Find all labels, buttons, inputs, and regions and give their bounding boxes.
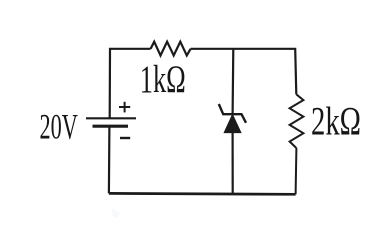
wire middle branch top (tee on top wire down to zener cathode) — [232, 49, 235, 114]
svg-text:20V: 20V — [40, 106, 78, 146]
svg-text:2kΩ: 2kΩ — [311, 98, 361, 143]
scan artifact (faint smudge) — [112, 208, 120, 218]
wire right vertical lower (R2 to bottom-right corner) — [295, 148, 298, 194]
wire top-right segment (R1 to top-right corner, down to R2) — [191, 49, 297, 95]
battery V1 bottom plate (−) — [93, 125, 129, 128]
zener diode D1 triangle (anode, filled) — [224, 115, 241, 133]
zener diode D1 cathode bar with bent tails — [219, 104, 246, 123]
resistor R1 (1kΩ) zigzag — [151, 42, 191, 56]
battery V1 20V top plate (+) — [86, 117, 136, 119]
wire left vertical lower (battery − to bottom-left corner) — [108, 126, 111, 193]
battery plus sign — [119, 102, 130, 113]
wire top-left segment and left vertical (node A to battery +) — [110, 49, 151, 118]
resistor R2 (2kΩ) vertical zigzag — [290, 94, 304, 148]
wire bottom (ground return, bottom-left to bottom-right corner) — [109, 192, 296, 196]
wire middle branch bottom (zener anode to bottom wire) — [232, 132, 234, 194]
svg-text:1kΩ: 1kΩ — [140, 58, 186, 101]
battery minus sign — [120, 137, 130, 139]
